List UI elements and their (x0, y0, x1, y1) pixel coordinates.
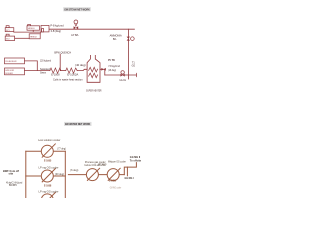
svg-text:Pr 78: Pr 78 (108, 58, 115, 62)
control valve GG-CG (121, 71, 125, 77)
wire: vertical V1 drop (127, 29, 129, 79)
wire: ladder left riser (25, 151, 27, 198)
wire: vessel outlet (100, 69, 105, 75)
svg-text:GM STEAM NET WORK: GM STEAM NET WORK (64, 8, 90, 12)
svg-text:GG: GG (132, 64, 136, 67)
wire: branch to GG MG I (126, 167, 128, 176)
wire: box2 to coil line (25, 70, 50, 72)
steam drum box (41, 25, 49, 32)
svg-text:site: site (9, 172, 14, 176)
boiler feed box 1 (5, 58, 25, 64)
svg-text:7-8 kg/cmd: 7-8 kg/cmd (108, 64, 120, 68)
wire: BFW quench drop (59, 54, 61, 70)
svg-text:(16 deg): (16 deg) (108, 68, 116, 72)
title band (64, 122, 91, 126)
wire: stem C to bus (32, 30, 34, 32)
wire: rung 2 (26, 175, 66, 177)
svg-text:(40 deg): (40 deg) (75, 63, 86, 67)
coil E-1002A (zigzag) (66, 68, 78, 73)
pump E-1005 circle A (86, 168, 99, 180)
control valve CV1 on header (74, 20, 79, 29)
wire: between coils (61, 70, 66, 72)
cooler circle 3 (clipped) (41, 193, 55, 206)
svg-text:E-1008: E-1008 (44, 183, 52, 187)
boiler HRSG1 (27, 25, 40, 31)
valve on V1 with side actuator (127, 37, 135, 41)
svg-text:RG BOILER: RG BOILER (6, 61, 17, 63)
svg-text:P-8 kg/cmd: P-8 kg/cmd (50, 24, 64, 28)
boiler feed box 2 (5, 68, 25, 75)
svg-text:HW GOR: HW GOR (6, 70, 15, 72)
wire: box1 to manifold (25, 61, 38, 71)
svg-text:GT2: GT2 (6, 39, 10, 41)
svg-text:E-GGS: E-GGS (109, 178, 116, 182)
wire: rung 1 (26, 150, 66, 152)
svg-text:HRSG1: HRSG1 (28, 28, 35, 30)
svg-text:BOILER: BOILER (6, 73, 14, 75)
svg-text:Steam: Steam (40, 70, 47, 74)
svg-text:LP mg GG cooler: LP mg GG cooler (39, 190, 59, 194)
svg-text:(6 deg): (6 deg) (70, 168, 78, 172)
wire: process water line (68, 174, 124, 176)
svg-text:GG MG I: GG MG I (125, 176, 134, 180)
title band (63, 7, 91, 11)
svg-text:120 kg/cmd: 120 kg/cmd (40, 59, 51, 63)
page background (0, 0, 149, 198)
svg-text:SUPER HEATER: SUPER HEATER (86, 88, 102, 92)
svg-text:Whipper GG cooler: Whipper GG cooler (108, 159, 126, 163)
wire: coil to vessel (77, 69, 87, 70)
svg-text:Low solution cooler: Low solution cooler (38, 138, 60, 142)
wire: ladder right riser (64, 151, 66, 198)
svg-text:HRSG2: HRSG2 (30, 36, 37, 38)
svg-text:0-B (Deg): 0-B (Deg) (51, 29, 61, 33)
svg-text:GM WATER NET WORK: GM WATER NET WORK (65, 122, 90, 126)
svg-text:To offsite: To offsite (130, 158, 142, 162)
boiler HRSG2 (29, 34, 40, 39)
cooler circle 2 (41, 169, 55, 182)
svg-text:GT1: GT1 (6, 30, 10, 32)
svg-text:GM WG cooler: GM WG cooler (110, 187, 122, 190)
svg-text:E-1002A: E-1002A (67, 73, 78, 77)
superheater vessel (87, 55, 100, 82)
coil E-1008 (zigzag) (50, 68, 61, 73)
svg-text:(30 deg): (30 deg) (55, 172, 64, 176)
svg-text:E-1008: E-1008 (51, 73, 60, 77)
wire: collector bus (14, 31, 41, 33)
coil inside vessel (89, 67, 98, 72)
svg-text:Coils in waste heat section: Coils in waste heat section (53, 78, 83, 82)
svg-text:LP B/L: LP B/L (71, 33, 79, 37)
svg-text:GG-CG: GG-CG (119, 79, 126, 82)
wire: staircase to offsite (124, 163, 136, 175)
wire: main steam header (49, 28, 134, 30)
boiler GT2 (5, 34, 14, 40)
wire: stem D to bus (39, 32, 41, 34)
wire: superheater discharge line (105, 74, 137, 76)
svg-text:E-1005: E-1005 (44, 158, 52, 162)
svg-text:BM 88Hz: BM 88Hz (9, 184, 18, 187)
boiler GT1 (5, 26, 14, 32)
line end tick (136, 73, 138, 77)
svg-text:LP mg OG cooler: LP mg OG cooler (39, 166, 59, 170)
svg-text:BFW QUENCH: BFW QUENCH (54, 50, 71, 54)
wire: boiler line B to D (15, 37, 30, 39)
svg-text:(47 deg): (47 deg) (98, 162, 106, 166)
pump E-GGS circle B (107, 168, 120, 180)
cooler E-1005 circle 1 (41, 144, 55, 157)
svg-text:(77 deg): (77 deg) (57, 146, 66, 150)
svg-text:B/L: B/L (113, 37, 117, 41)
valve on vessel outlet (101, 68, 105, 71)
